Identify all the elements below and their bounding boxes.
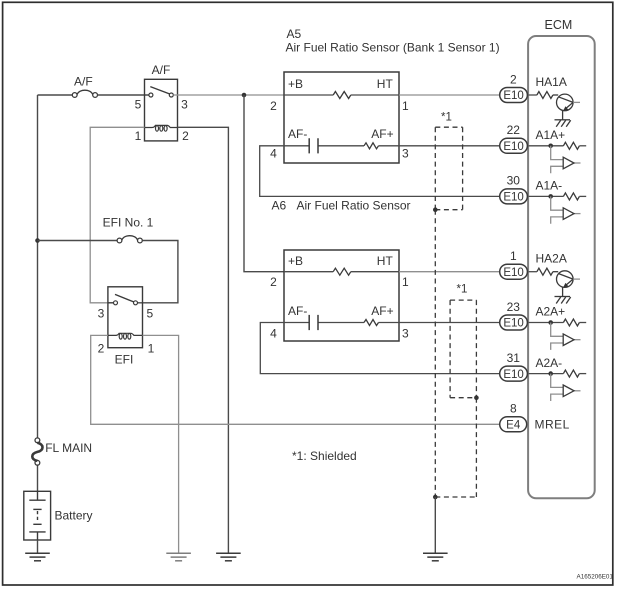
- fusible link FL MAIN: [32, 438, 42, 465]
- connector E4-8: [500, 402, 527, 432]
- svg-text:2: 2: [270, 275, 277, 289]
- svg-text:E4: E4: [506, 420, 521, 432]
- shield *1 around A5 signal pair: [435, 127, 462, 497]
- wire: shield drain to ground: [434, 497, 436, 553]
- svg-text:2: 2: [270, 99, 277, 113]
- wire: +B down feed to sensor A6: [244, 95, 284, 272]
- wire: A5 AF- to E10-30: [260, 146, 500, 197]
- svg-text:A/F: A/F: [74, 75, 93, 89]
- capacitor: A5 cell: [309, 138, 318, 153]
- svg-text:*1: *1: [441, 112, 452, 124]
- battery B1: [24, 491, 51, 540]
- svg-text:HT: HT: [377, 77, 394, 91]
- wire: fuse to A/F relay: [98, 94, 149, 96]
- sensor A6 box: [284, 250, 399, 341]
- ECM box: [528, 36, 595, 498]
- ECM row A2A+: wire, node, resistor: [529, 322, 564, 324]
- op-amp buffer (A2A-): [551, 374, 581, 401]
- node: +B branch junction: [242, 93, 247, 98]
- connector E10-1: [500, 249, 528, 279]
- svg-text:ECM: ECM: [545, 18, 573, 32]
- ECM row A1A+: wire, node, resistor: [529, 145, 564, 147]
- fuse EFI No. 1: [117, 236, 142, 243]
- ground: EFI relay coil: [166, 553, 191, 561]
- resistor: A5 cell: [364, 143, 379, 149]
- svg-text:1: 1: [402, 275, 409, 289]
- svg-text:E10: E10: [503, 192, 523, 204]
- svg-text:A/F: A/F: [152, 63, 171, 77]
- svg-text:5: 5: [146, 306, 153, 320]
- sensor A5 (Bank1 Sensor1) box: [284, 72, 399, 163]
- svg-text:E10: E10: [503, 267, 523, 279]
- svg-text:Air Fuel Ratio Sensor: Air Fuel Ratio Sensor: [297, 198, 411, 212]
- connector E10-22: [500, 123, 528, 153]
- wire: A/F relay coil pin1 to EFI relay pin3: [90, 127, 144, 302]
- svg-text:A1A+: A1A+: [536, 128, 566, 142]
- svg-text:*1: *1: [457, 284, 468, 296]
- fuse A/F: [72, 90, 97, 97]
- svg-text:3: 3: [181, 98, 188, 112]
- svg-text:AF-: AF-: [288, 304, 307, 318]
- wire: battery to ground: [37, 540, 39, 553]
- resistor: A6 heater: [333, 268, 351, 275]
- svg-text:AF+: AF+: [371, 304, 393, 318]
- svg-text:1: 1: [510, 249, 517, 263]
- ECM row HA1A: resistor: [529, 94, 537, 96]
- node: EFI No.1 branch: [35, 238, 40, 243]
- svg-text:23: 23: [507, 300, 521, 314]
- svg-text:+B: +B: [288, 77, 303, 91]
- wire: sensor A6 cell row: [284, 322, 399, 324]
- svg-text:2: 2: [510, 72, 517, 86]
- svg-text:8: 8: [510, 402, 517, 416]
- svg-text:3: 3: [98, 306, 105, 320]
- ground: battery: [25, 553, 50, 561]
- shield *1 around A6 signal pair: [450, 300, 476, 497]
- relay EFI: [108, 287, 143, 348]
- svg-text:3: 3: [402, 327, 409, 341]
- wire: A6 AF- to E10-31: [260, 323, 500, 374]
- ECM row HA2A: resistor: [529, 271, 537, 273]
- ground: A/F relay coil: [216, 553, 241, 561]
- wire: A/F relay coil pin2 to ground: [178, 127, 229, 553]
- op-amp buffer (A1A-): [551, 196, 581, 223]
- ground: HA1A transistor (hatched): [555, 120, 571, 127]
- svg-text:1: 1: [148, 342, 155, 356]
- svg-text:4: 4: [270, 327, 277, 341]
- svg-text:EFI No. 1: EFI No. 1: [103, 215, 154, 229]
- svg-text:A165206E01: A165206E01: [577, 574, 614, 581]
- svg-text:E10: E10: [503, 318, 523, 330]
- wire: A5 HT to E10-2: [399, 94, 500, 96]
- connector E10-23: [500, 300, 528, 330]
- svg-text:E10: E10: [503, 369, 523, 381]
- wire: EFI relay coil pin1 to ground: [143, 335, 179, 553]
- svg-text:MREL: MREL: [535, 418, 570, 432]
- svg-text:HT: HT: [377, 254, 394, 268]
- ECM row A2A-: wire, node, resistor: [529, 373, 564, 375]
- svg-text:31: 31: [507, 351, 521, 365]
- svg-text:*1: Shielded: *1: Shielded: [292, 449, 357, 463]
- wire: A6 HT to E10-1: [399, 271, 500, 273]
- resistor: A6 cell: [364, 320, 379, 326]
- svg-text:HA1A: HA1A: [536, 75, 567, 89]
- wire: sensor A6 heater row: [284, 271, 399, 273]
- op-amp buffer (A1A+): [551, 146, 581, 173]
- wire: top feed horizontal to A/F fuse: [38, 94, 73, 96]
- svg-text:+B: +B: [288, 254, 303, 268]
- svg-text:E10: E10: [503, 141, 523, 153]
- wire: EFI relay coil pin2 to MREL (E4-8): [91, 335, 500, 424]
- shield drain junction: [435, 496, 476, 498]
- relay A/F: [145, 79, 178, 141]
- wire: A5 AF+ to E10-22: [399, 145, 500, 147]
- wire: A/F relay pin3 to sensors +B: [173, 94, 284, 96]
- svg-text:A6: A6: [272, 198, 287, 212]
- connector E10-30: [500, 174, 528, 204]
- svg-text:4: 4: [270, 147, 277, 161]
- svg-text:1: 1: [135, 129, 142, 143]
- op-amp buffer (A2A+): [551, 323, 581, 350]
- svg-text:A5: A5: [287, 27, 302, 41]
- svg-text:2: 2: [98, 342, 105, 356]
- resistor: A5 heater: [333, 92, 351, 99]
- connector E10-31: [500, 351, 528, 381]
- transistor Q (HA2A driver): [553, 271, 580, 297]
- wire: A6 AF+ to E10-23: [399, 322, 500, 324]
- wire: battery to FL MAIN: [37, 465, 39, 491]
- wire: sensor A5 cell row: [284, 145, 399, 147]
- svg-text:HA2A: HA2A: [536, 252, 567, 266]
- svg-text:2: 2: [182, 129, 189, 143]
- capacitor: A6 cell: [309, 315, 318, 330]
- svg-text:3: 3: [402, 147, 409, 161]
- svg-text:1: 1: [402, 99, 409, 113]
- svg-text:E10: E10: [503, 90, 523, 102]
- svg-text:AF+: AF+: [371, 127, 393, 141]
- transistor Q (HA1A driver): [553, 94, 580, 120]
- wire: left main vertical (battery feed): [37, 95, 39, 438]
- svg-text:FL MAIN: FL MAIN: [45, 441, 92, 455]
- svg-text:Battery: Battery: [55, 508, 93, 522]
- ground: shield drain: [423, 553, 448, 561]
- svg-text:5: 5: [135, 98, 142, 112]
- connector E10-2: [500, 72, 528, 102]
- svg-text:22: 22: [507, 123, 521, 137]
- wire: EFI No.1 fuse to EFI relay pin5: [138, 241, 178, 303]
- ECM row A1A-: wire, node, resistor: [529, 195, 564, 197]
- ground: HA2A transistor (hatched): [555, 297, 571, 304]
- wire: to EFI No.1 fuse: [38, 240, 118, 242]
- svg-text:30: 30: [507, 174, 521, 188]
- svg-text:A1A-: A1A-: [536, 179, 563, 193]
- wire: sensor A5 heater row: [284, 94, 399, 96]
- svg-text:A2A-: A2A-: [536, 356, 563, 370]
- svg-text:EFI: EFI: [115, 353, 134, 367]
- svg-text:A2A+: A2A+: [536, 305, 566, 319]
- svg-text:Air Fuel Ratio Sensor (Bank 1: Air Fuel Ratio Sensor (Bank 1 Sensor 1): [286, 41, 500, 55]
- svg-text:AF-: AF-: [288, 127, 307, 141]
